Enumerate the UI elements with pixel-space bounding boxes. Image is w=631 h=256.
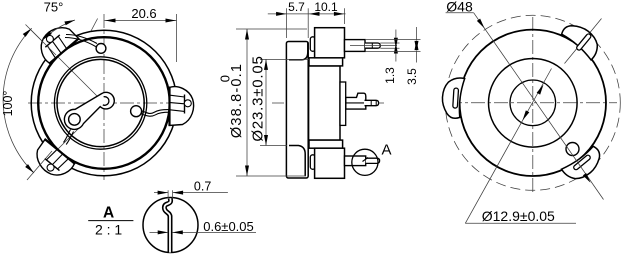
mid body rect xyxy=(309,66,340,140)
label divider line xyxy=(88,220,133,222)
top pin bend tick xyxy=(371,43,373,48)
svg-text:0.6±0.05: 0.6±0.05 xyxy=(203,219,254,234)
centerline diagonal 225deg xyxy=(48,103,104,159)
back tab top-right xyxy=(559,19,604,60)
top lip xyxy=(309,58,343,66)
hole left xyxy=(69,114,81,126)
middle pin bend ticks xyxy=(370,100,372,105)
wire bottom-left tab to left hole xyxy=(64,130,74,145)
centerline vertical xyxy=(103,14,105,180)
detail marker circle A xyxy=(352,149,378,175)
inner circle outer line xyxy=(54,57,146,149)
back tab bottom-right xyxy=(561,144,606,186)
svg-text:100°: 100° xyxy=(1,91,15,117)
middle pin inner line xyxy=(346,102,364,104)
outer flange circle xyxy=(31,30,177,176)
hole right xyxy=(131,106,142,117)
bottom lip xyxy=(309,140,343,148)
centerline horizontal xyxy=(272,102,384,104)
arrow 75 arc top end xyxy=(64,18,75,25)
centerline diagonal 135deg xyxy=(31,30,104,103)
svg-text:Ø38.8-0.1: Ø38.8-0.1 xyxy=(229,63,245,138)
bottom pin xyxy=(366,158,380,163)
svg-text:1.3: 1.3 xyxy=(383,67,397,84)
dim 5.7 / 10.1 top xyxy=(286,8,288,38)
flange profile rect xyxy=(286,42,308,179)
radial extension bottom-left xyxy=(27,151,52,180)
small hole bottom-right xyxy=(566,143,579,156)
dim 1.3 xyxy=(380,42,399,44)
bottom clamp block xyxy=(315,148,345,178)
middle pin xyxy=(365,100,379,105)
outer circle xyxy=(460,30,606,176)
svg-text:A: A xyxy=(103,205,114,222)
dim 3.5 xyxy=(365,39,421,41)
body shoulder top xyxy=(289,42,308,60)
contact arm with center loop xyxy=(64,92,114,129)
svg-text:0.7: 0.7 xyxy=(194,179,211,193)
hole top xyxy=(96,44,106,54)
svg-text:Ø12.9±0.05: Ø12.9±0.05 xyxy=(482,208,555,224)
svg-text:Ø23.3±0.05: Ø23.3±0.05 xyxy=(249,55,266,141)
central plate xyxy=(340,82,346,125)
top pin base xyxy=(345,40,366,52)
dim 0.7 xyxy=(154,192,168,194)
top pin axis xyxy=(350,45,397,47)
arrow 75 arc left end xyxy=(42,31,52,41)
back tab left xyxy=(441,77,464,119)
inner circle inner line xyxy=(57,59,144,146)
dimension arc 75deg xyxy=(43,20,75,40)
svg-text:3.5: 3.5 xyxy=(405,68,419,85)
centerline horizontal xyxy=(28,102,180,104)
top clamp block xyxy=(315,28,345,58)
dim line dia23.3 xyxy=(260,58,309,60)
dashed circle (tab pitch) xyxy=(445,15,620,190)
arrow 100 arc top end xyxy=(23,27,33,37)
detail circle xyxy=(143,198,198,253)
centerline horizontal xyxy=(448,102,617,104)
dim 0.6+-0.05 xyxy=(150,231,169,233)
dim line dia38.8 xyxy=(236,28,307,30)
wire top-left tab to top hole xyxy=(65,35,97,47)
arrow 100 arc bottom end xyxy=(25,164,35,174)
strip extension lines up xyxy=(167,190,169,198)
wire right hole to right tab xyxy=(140,110,170,117)
clip bump top xyxy=(310,37,315,52)
dimension 20.6 xyxy=(105,20,177,22)
inner circle xyxy=(510,80,556,126)
radial centerline top-right tab xyxy=(565,19,602,64)
mounting tab bottom-left xyxy=(29,139,75,183)
clip bump bottom xyxy=(310,155,315,170)
rim circle thick xyxy=(38,37,170,169)
mounting tab right (template) xyxy=(169,87,193,127)
svg-text:A: A xyxy=(381,142,391,159)
middle circle xyxy=(489,59,578,148)
pin cross-section (S-bend strip) xyxy=(164,198,170,252)
svg-text:10.1: 10.1 xyxy=(314,0,338,14)
dimension arc 100deg xyxy=(3,28,34,173)
bottom pin base xyxy=(345,156,366,166)
mounting tab top-left xyxy=(33,20,79,64)
centerline vertical xyxy=(532,17,534,195)
body shoulder bottom xyxy=(289,146,305,177)
radial extension top xyxy=(91,19,98,32)
bottom pin crimp line xyxy=(363,158,369,162)
svg-text:2 : 1: 2 : 1 xyxy=(95,222,122,238)
svg-text:20.6: 20.6 xyxy=(131,6,156,21)
loop inner curl xyxy=(103,97,109,106)
svg-text:Ø48: Ø48 xyxy=(446,0,473,14)
middle pin base xyxy=(346,93,366,109)
svg-text:5.7: 5.7 xyxy=(288,0,305,14)
radial extension 135deg xyxy=(26,25,57,56)
top pin xyxy=(365,43,380,48)
dia12.9 dimension xyxy=(465,222,576,224)
svg-text:75°: 75° xyxy=(44,0,64,15)
